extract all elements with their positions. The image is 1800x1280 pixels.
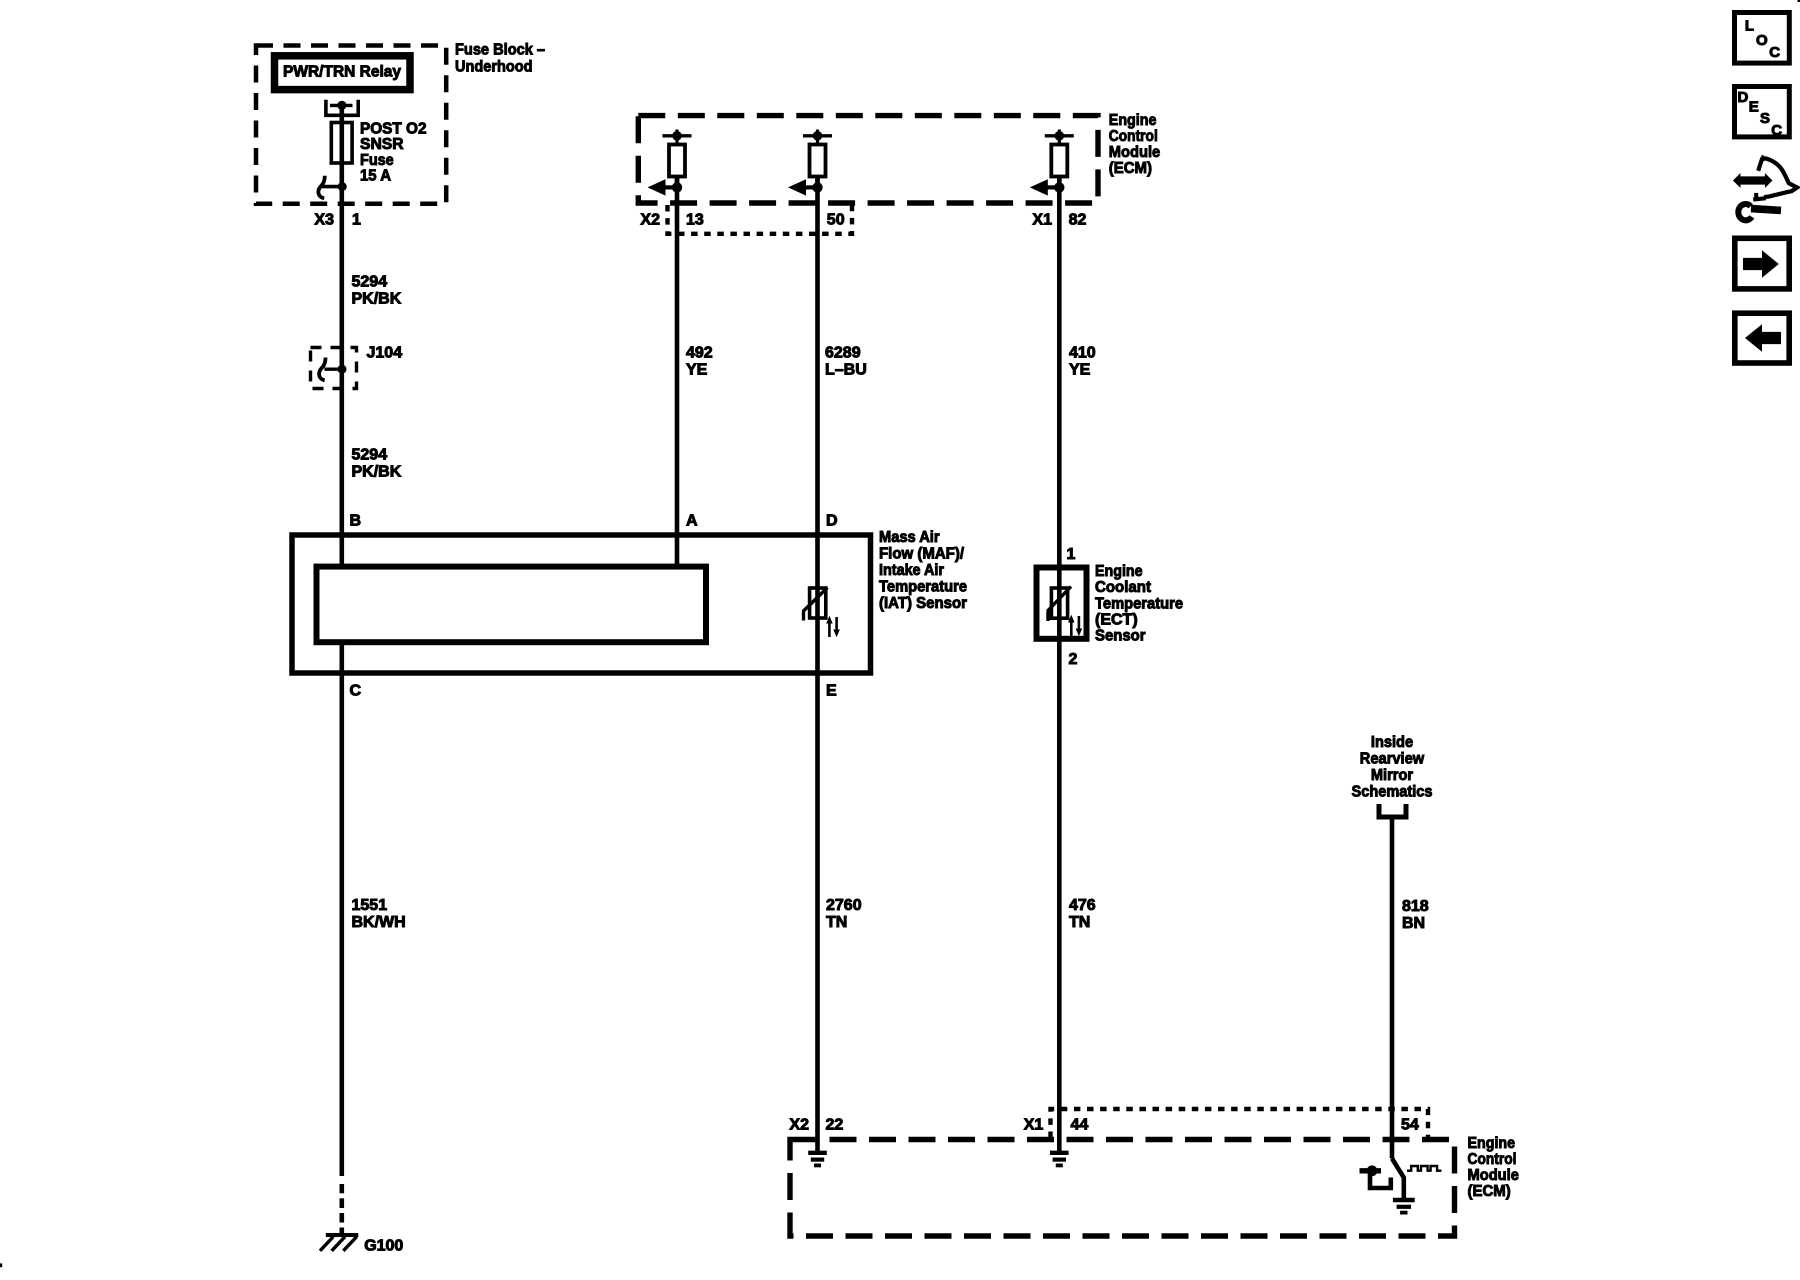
svg-text:YE: YE	[686, 362, 708, 379]
off-page reference bracket	[1379, 804, 1406, 817]
svg-text:X1: X1	[1024, 1117, 1044, 1134]
svg-text:82: 82	[1069, 211, 1087, 228]
svg-text:Module: Module	[1468, 1167, 1519, 1184]
svg-text:Module: Module	[1109, 144, 1160, 161]
svg-text:492: 492	[686, 345, 713, 362]
ECM driver pin symbol, X1-82	[1045, 134, 1074, 137]
svg-text:YE: YE	[1069, 362, 1091, 379]
svg-text:BK/WH: BK/WH	[352, 914, 406, 931]
svg-text:B: B	[350, 513, 362, 530]
svg-text:50: 50	[827, 211, 845, 228]
ECM driver pin symbol, X2-13	[663, 134, 692, 137]
svg-text:1: 1	[1067, 546, 1076, 563]
svg-text:C: C	[1771, 122, 1782, 139]
svg-text:1551: 1551	[352, 897, 388, 914]
ECT sensor box	[1037, 568, 1087, 639]
thermistor (IAT) symbol	[810, 588, 826, 618]
svg-text:Sensor: Sensor	[1095, 628, 1146, 645]
svg-text:Inside: Inside	[1371, 734, 1413, 751]
svg-text:C: C	[1769, 44, 1780, 61]
svg-text:TN: TN	[1069, 914, 1090, 931]
svg-text:J104: J104	[367, 345, 403, 362]
svg-text:D: D	[826, 513, 838, 530]
svg-text:410: 410	[1069, 345, 1096, 362]
terminal junction with hook (fuse output)	[322, 185, 342, 189]
svg-text:(ECT): (ECT)	[1095, 612, 1138, 629]
svg-text:C: C	[350, 683, 362, 700]
svg-text:(ECM): (ECM)	[1109, 160, 1152, 177]
sidebar icon: DESC button	[1735, 87, 1790, 137]
page edge registration marks	[1798, 0, 1800, 2]
svg-text:X1: X1	[1032, 211, 1052, 228]
svg-text:2: 2	[1069, 651, 1078, 668]
fuse F: POST O2 SNSR Fuse 15 A	[331, 123, 352, 164]
sidebar icon: LOC button	[1735, 13, 1790, 64]
sidebar icon: back (left arrow) button	[1735, 313, 1789, 363]
sidebar icon: next (right arrow) button	[1735, 238, 1789, 289]
svg-text:476: 476	[1069, 897, 1096, 914]
svg-text:15 A: 15 A	[360, 168, 391, 185]
svg-text:5294: 5294	[352, 447, 388, 464]
svg-text:Fuse: Fuse	[360, 152, 394, 169]
svg-text:22: 22	[826, 1117, 844, 1134]
signal arrow at pin X2-50	[805, 185, 818, 189]
ground symbol inside ECM at X1-44	[1050, 1151, 1069, 1155]
svg-text:A: A	[686, 513, 698, 530]
wire: dashed segment to G100 ground	[339, 1184, 344, 1193]
MAF/IAT sensor outer box	[292, 535, 871, 673]
signal arrow at pin X1-82	[1046, 185, 1059, 189]
wire: jog inside bottom ECM at pin 54	[1392, 1159, 1404, 1199]
wire: circuit 1551 BK/WH (MAF pin C to G100)	[339, 642, 344, 1176]
svg-text:Coolant: Coolant	[1095, 579, 1152, 596]
connector dotted box X2 (pins 13, 50)	[668, 205, 853, 234]
svg-text:PK/BK: PK/BK	[352, 464, 402, 481]
bus bar terminal below relay	[326, 100, 358, 116]
svg-text:Engine: Engine	[1109, 112, 1157, 129]
switch contact symbol at pin 54	[1360, 1168, 1382, 1173]
svg-text:E: E	[1749, 98, 1759, 115]
svg-text:PK/BK: PK/BK	[352, 291, 402, 308]
svg-text:G100: G100	[364, 1238, 403, 1255]
svg-text:X2: X2	[789, 1117, 809, 1134]
connector dotted box X1 (pins 44, 54)	[1051, 1109, 1429, 1138]
square wave signal symbol	[1407, 1166, 1441, 1171]
svg-text:818: 818	[1402, 898, 1429, 915]
wire: circuit 492 YE (ECM X2-13 to MAF pin A)	[675, 177, 680, 567]
svg-text:Control: Control	[1468, 1151, 1517, 1168]
signal arrow at pin X2-13	[664, 185, 677, 189]
engine control module (ECM) dashed box, top	[638, 116, 1098, 203]
svg-text:Schematics: Schematics	[1352, 784, 1433, 801]
svg-text:2760: 2760	[826, 897, 862, 914]
svg-text:Engine: Engine	[1468, 1135, 1516, 1152]
svg-text:13: 13	[686, 211, 704, 228]
svg-text:TN: TN	[826, 914, 847, 931]
relay K: PWR/TRN Relay box	[275, 56, 411, 90]
thermistor (ECT) symbol	[1051, 588, 1067, 618]
splice J104 dashed box with terminal	[311, 348, 357, 389]
svg-text:E: E	[826, 683, 837, 700]
svg-text:Mirror: Mirror	[1371, 767, 1413, 784]
svg-text:D: D	[1738, 89, 1749, 106]
svg-text:Intake Air: Intake Air	[879, 562, 944, 579]
svg-text:5294: 5294	[352, 274, 388, 291]
MAF sensor inner element box	[317, 567, 707, 643]
svg-text:PWR/TRN Relay: PWR/TRN Relay	[283, 64, 401, 81]
svg-text:SNSR: SNSR	[360, 136, 404, 153]
svg-text:Temperature: Temperature	[879, 579, 967, 596]
ground symbol inside ECM at pin 54 circuit	[1393, 1198, 1415, 1202]
svg-text:X2: X2	[640, 211, 660, 228]
svg-text:Temperature: Temperature	[1095, 596, 1183, 613]
wire: circuit 6289 L-BU / 2760 TN (ECM X2-50 through MAF IAT to ECM X2-22)	[815, 177, 820, 1152]
svg-text:POST O2: POST O2	[360, 121, 427, 138]
svg-text:(ECM): (ECM)	[1468, 1183, 1511, 1200]
ground symbol inside ECM at X2-22	[808, 1151, 827, 1155]
svg-text:L–BU: L–BU	[825, 362, 867, 379]
engine control module (ECM) dashed box, bottom	[790, 1140, 1455, 1237]
sidebar icon: vehicle navigation with wrench	[1741, 176, 1766, 184]
svg-text:S: S	[1760, 110, 1770, 127]
svg-text:O: O	[1756, 32, 1768, 49]
chassis ground G100	[326, 1233, 359, 1237]
svg-text:Underhood: Underhood	[455, 58, 533, 75]
svg-text:44: 44	[1071, 1117, 1089, 1134]
svg-text:L: L	[1745, 18, 1754, 35]
svg-text:Rearview: Rearview	[1360, 751, 1425, 768]
svg-text:BN: BN	[1402, 915, 1425, 932]
svg-text:Mass Air: Mass Air	[879, 529, 940, 546]
fuse block - underhood dashed box	[256, 46, 446, 204]
svg-text:6289: 6289	[825, 345, 861, 362]
svg-text:54: 54	[1401, 1117, 1419, 1134]
svg-text:X3: X3	[314, 211, 334, 228]
wire: fuse block output, circuit 5294 PK/BK (X3-1 to MAF pin B)	[339, 105, 344, 566]
wire: circuit 410 YE / 476 TN (ECM X1-82 through ECT sensor to ECM X1-44)	[1057, 177, 1062, 1152]
ECM driver pin symbol, X2-50	[803, 134, 832, 137]
svg-text:Flow (MAF)/: Flow (MAF)/	[879, 546, 965, 563]
svg-text:Control: Control	[1109, 128, 1158, 145]
svg-text:Fuse Block –: Fuse Block –	[455, 42, 545, 59]
svg-text:1: 1	[352, 211, 361, 228]
svg-text:Engine: Engine	[1095, 563, 1143, 580]
wire: circuit 818 BN (mirror schematics to ECM X1-54)	[1390, 817, 1395, 1159]
svg-text:(IAT) Sensor: (IAT) Sensor	[879, 595, 967, 612]
